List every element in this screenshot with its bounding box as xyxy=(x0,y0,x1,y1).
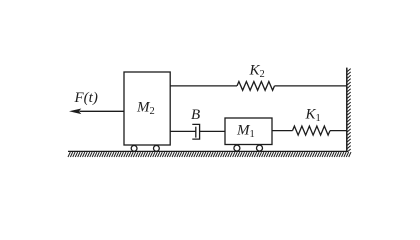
svg-text:M2: M2 xyxy=(136,100,155,118)
wall hatching xyxy=(347,69,350,152)
M2 right wheel xyxy=(154,146,160,152)
wall xyxy=(346,68,348,152)
wire spring K2 to wall xyxy=(275,85,347,87)
svg-text:K1: K1 xyxy=(305,107,321,125)
wire spring K1 to wall xyxy=(330,130,347,132)
damper rod left xyxy=(170,130,196,132)
ground line xyxy=(68,150,348,152)
svg-text:K2: K2 xyxy=(249,63,265,81)
svg-text:M1: M1 xyxy=(236,123,255,141)
damper cylinder cup xyxy=(192,124,199,139)
mass M1 xyxy=(225,118,272,145)
M1 right wheel xyxy=(257,145,263,151)
damper piston plate xyxy=(195,127,197,138)
wire M2 to spring K2 xyxy=(170,85,237,87)
svg-text:B: B xyxy=(191,107,200,123)
spring K2 xyxy=(237,82,274,91)
ground hatching xyxy=(68,152,351,157)
M2 left wheel xyxy=(131,146,137,152)
spring K1 xyxy=(293,126,330,135)
force arrow F(t) xyxy=(69,109,124,115)
svg-text:F(t): F(t) xyxy=(74,90,98,106)
damper rod right xyxy=(200,130,225,132)
M1 left wheel xyxy=(234,145,240,151)
mass M2 xyxy=(124,72,170,145)
wire M1 to spring K1 xyxy=(272,130,293,132)
